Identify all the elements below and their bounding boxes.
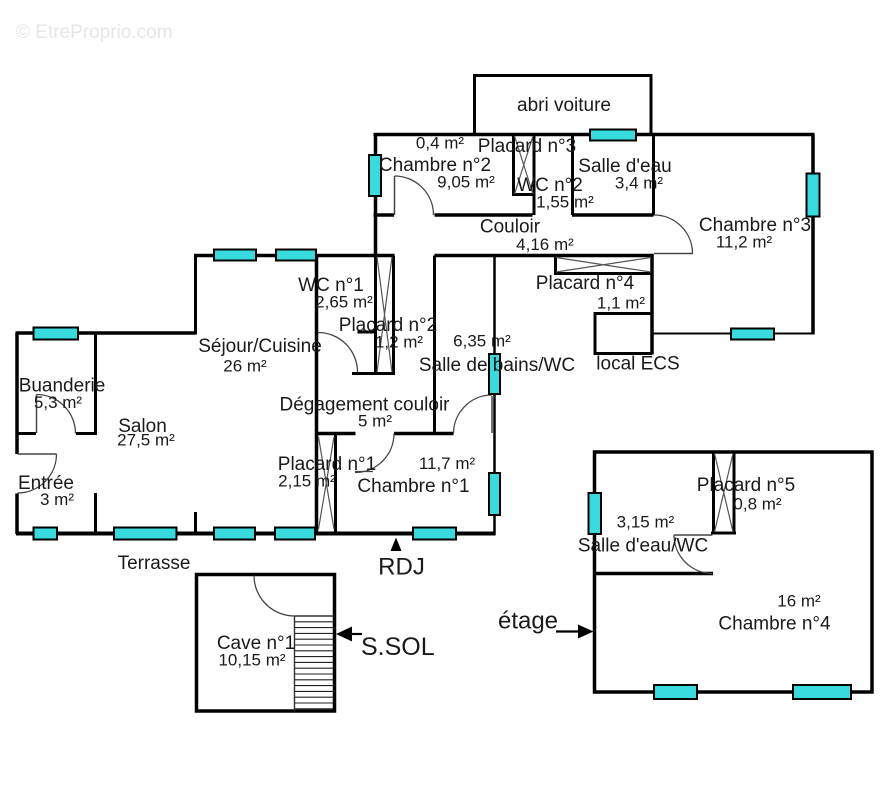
wall left upper (chambre n2 west) bbox=[374, 135, 378, 258]
wall entree/salon divider bbox=[94, 493, 97, 534]
svg-text:2,65 m²: 2,65 m² bbox=[315, 293, 373, 312]
door salle d'eau etage bbox=[674, 534, 713, 536]
window sejour north 1 bbox=[214, 250, 256, 261]
stairs rungs cave bbox=[295, 622, 334, 709]
svg-text:6,35 m²: 6,35 m² bbox=[453, 332, 511, 351]
svg-text:10,15 m²: 10,15 m² bbox=[218, 651, 285, 670]
stairs divider cave bbox=[295, 616, 334, 711]
X cross placard n5 bbox=[715, 454, 734, 533]
wall couloir bottom segments bbox=[194, 254, 654, 258]
window chambre n4 south 1 bbox=[654, 685, 697, 699]
arrow etage bbox=[556, 630, 579, 632]
X cross placard n2 bbox=[377, 257, 392, 372]
svg-text:Séjour/Cuisine: Séjour/Cuisine bbox=[198, 336, 322, 357]
svg-text:3,15 m²: 3,15 m² bbox=[617, 513, 675, 532]
wall buanderie south segments bbox=[16, 432, 97, 435]
X cross placard n1 bbox=[319, 437, 335, 529]
door chambre n1 bbox=[355, 434, 394, 473]
wall WC n2 right bbox=[571, 135, 574, 216]
door cave stairs arc bbox=[254, 576, 295, 617]
svg-text:Salle d'eau/WC: Salle d'eau/WC bbox=[578, 536, 708, 557]
placard n3 walls bbox=[512, 135, 535, 196]
svg-text:11,2 m²: 11,2 m² bbox=[716, 233, 773, 252]
window sejour south 1 bbox=[214, 528, 255, 540]
window abri top wall bbox=[590, 130, 636, 141]
wall buanderie east bbox=[94, 333, 97, 435]
window chambre n3 east bbox=[807, 174, 820, 217]
wall WC n1 bottom stub bbox=[358, 331, 377, 334]
wire top exterior wall RDJ bbox=[374, 133, 815, 137]
wall sejour east / WC n1 / placard n1 west bbox=[315, 256, 319, 535]
wall salle d'eau/WC etage south bbox=[595, 572, 714, 576]
svg-text:étage: étage bbox=[498, 608, 558, 635]
svg-text:27,5 m²: 27,5 m² bbox=[117, 431, 175, 450]
arrow S.SOL bbox=[336, 627, 352, 642]
X cross placard n3 bbox=[515, 136, 534, 194]
svg-text:0,4 m²: 0,4 m² bbox=[416, 134, 465, 153]
wall bottom exterior RDJ bbox=[16, 532, 496, 536]
svg-text:5 m²: 5 m² bbox=[358, 412, 392, 431]
svg-text:11,7 m²: 11,7 m² bbox=[419, 454, 476, 473]
svg-text:Chambre n°1: Chambre n°1 bbox=[357, 476, 469, 497]
svg-text:2,15 m²: 2,15 m² bbox=[278, 472, 336, 491]
wall top lower block (buanderie+salon north) bbox=[16, 331, 196, 335]
wall sejour west bbox=[194, 256, 197, 535]
svg-text:16 m²: 16 m² bbox=[777, 592, 821, 611]
svg-text:4,16 m²: 4,16 m² bbox=[516, 235, 574, 254]
svg-text:3 m²: 3 m² bbox=[40, 490, 74, 509]
svg-text:© EtreProprio.com: © EtreProprio.com bbox=[16, 22, 173, 43]
window chambre n1 south bbox=[413, 528, 456, 540]
window salle d'eau etage west bbox=[589, 493, 602, 534]
wall right exterior chambre n3 bbox=[811, 135, 815, 335]
cave box walls bbox=[197, 575, 335, 712]
wall right exterior lower block bbox=[493, 256, 496, 535]
svg-text:1,2 m²: 1,2 m² bbox=[375, 333, 424, 352]
window chambre n2 west bbox=[369, 155, 381, 196]
window salon south bbox=[114, 528, 177, 540]
wall left exterior lower block bbox=[15, 333, 19, 534]
local ECS walls bbox=[594, 312, 653, 354]
svg-text:Placard n°3: Placard n°3 bbox=[478, 136, 576, 157]
svg-text:Chambre n°4: Chambre n°4 bbox=[718, 613, 831, 634]
svg-text:1,1 m²: 1,1 m² bbox=[597, 294, 646, 313]
arrow RDJ bbox=[391, 538, 402, 552]
svg-text:Placard n°4: Placard n°4 bbox=[536, 273, 635, 294]
svg-text:Salle de bains/WC: Salle de bains/WC bbox=[419, 355, 575, 376]
X cross placard n4 bbox=[556, 258, 651, 273]
svg-text:Terrasse: Terrasse bbox=[118, 553, 191, 574]
svg-text:Placard n°5: Placard n°5 bbox=[697, 475, 795, 496]
wall salle d'eau / chambre n3 bbox=[652, 135, 655, 216]
wall chambre n3 bottom thin bbox=[652, 333, 814, 335]
placard n4 walls bbox=[554, 256, 653, 274]
wall placard n1 right bbox=[334, 435, 337, 533]
placard n5 walls bbox=[711, 452, 736, 534]
door entree front bbox=[18, 453, 57, 455]
door salle de bains bbox=[491, 396, 493, 433]
wall thick x652 (placard n4 / local ECS east) bbox=[650, 254, 654, 355]
window sejour south 2 bbox=[275, 528, 315, 540]
wall placard n2 bottom bbox=[352, 372, 395, 375]
svg-text:3,4 m²: 3,4 m² bbox=[615, 174, 664, 193]
svg-text:1,55 m²: 1,55 m² bbox=[536, 193, 594, 212]
window entree south small bbox=[34, 528, 58, 540]
wall couloir top segments bbox=[374, 213, 654, 217]
svg-text:abri voiture: abri voiture bbox=[517, 95, 611, 116]
svg-text:5,3 m²: 5,3 m² bbox=[34, 393, 83, 412]
door chambre n2 bbox=[394, 176, 396, 215]
window sejour north 2 bbox=[276, 250, 316, 261]
svg-text:local ECS: local ECS bbox=[596, 354, 679, 375]
svg-text:26 m²: 26 m² bbox=[223, 357, 267, 376]
window chambre n4 south 2 bbox=[793, 685, 851, 699]
wall placard n2 left bbox=[374, 256, 377, 375]
window chambre n3 south bbox=[731, 329, 774, 340]
abri voiture carport walls bbox=[473, 76, 653, 134]
door WC n1 bbox=[318, 333, 358, 373]
svg-text:0,8 m²: 0,8 m² bbox=[733, 495, 782, 514]
wall placard n2 right bbox=[392, 256, 395, 375]
window chambre n1 east bbox=[489, 473, 500, 515]
svg-text:RDJ: RDJ bbox=[378, 554, 425, 581]
etage box walls bbox=[595, 452, 873, 692]
svg-text:S.SOL: S.SOL bbox=[361, 633, 435, 661]
door chambre n3 bbox=[654, 253, 693, 255]
svg-text:9,05 m²: 9,05 m² bbox=[437, 173, 495, 192]
wall WC n2 left bbox=[533, 135, 536, 216]
door buanderie bbox=[36, 395, 38, 434]
window salle de bains east bbox=[489, 354, 500, 394]
window buanderie north bbox=[34, 328, 79, 340]
wall salle de bains west bbox=[433, 256, 436, 436]
wall chambre n1 north segments bbox=[317, 432, 454, 436]
